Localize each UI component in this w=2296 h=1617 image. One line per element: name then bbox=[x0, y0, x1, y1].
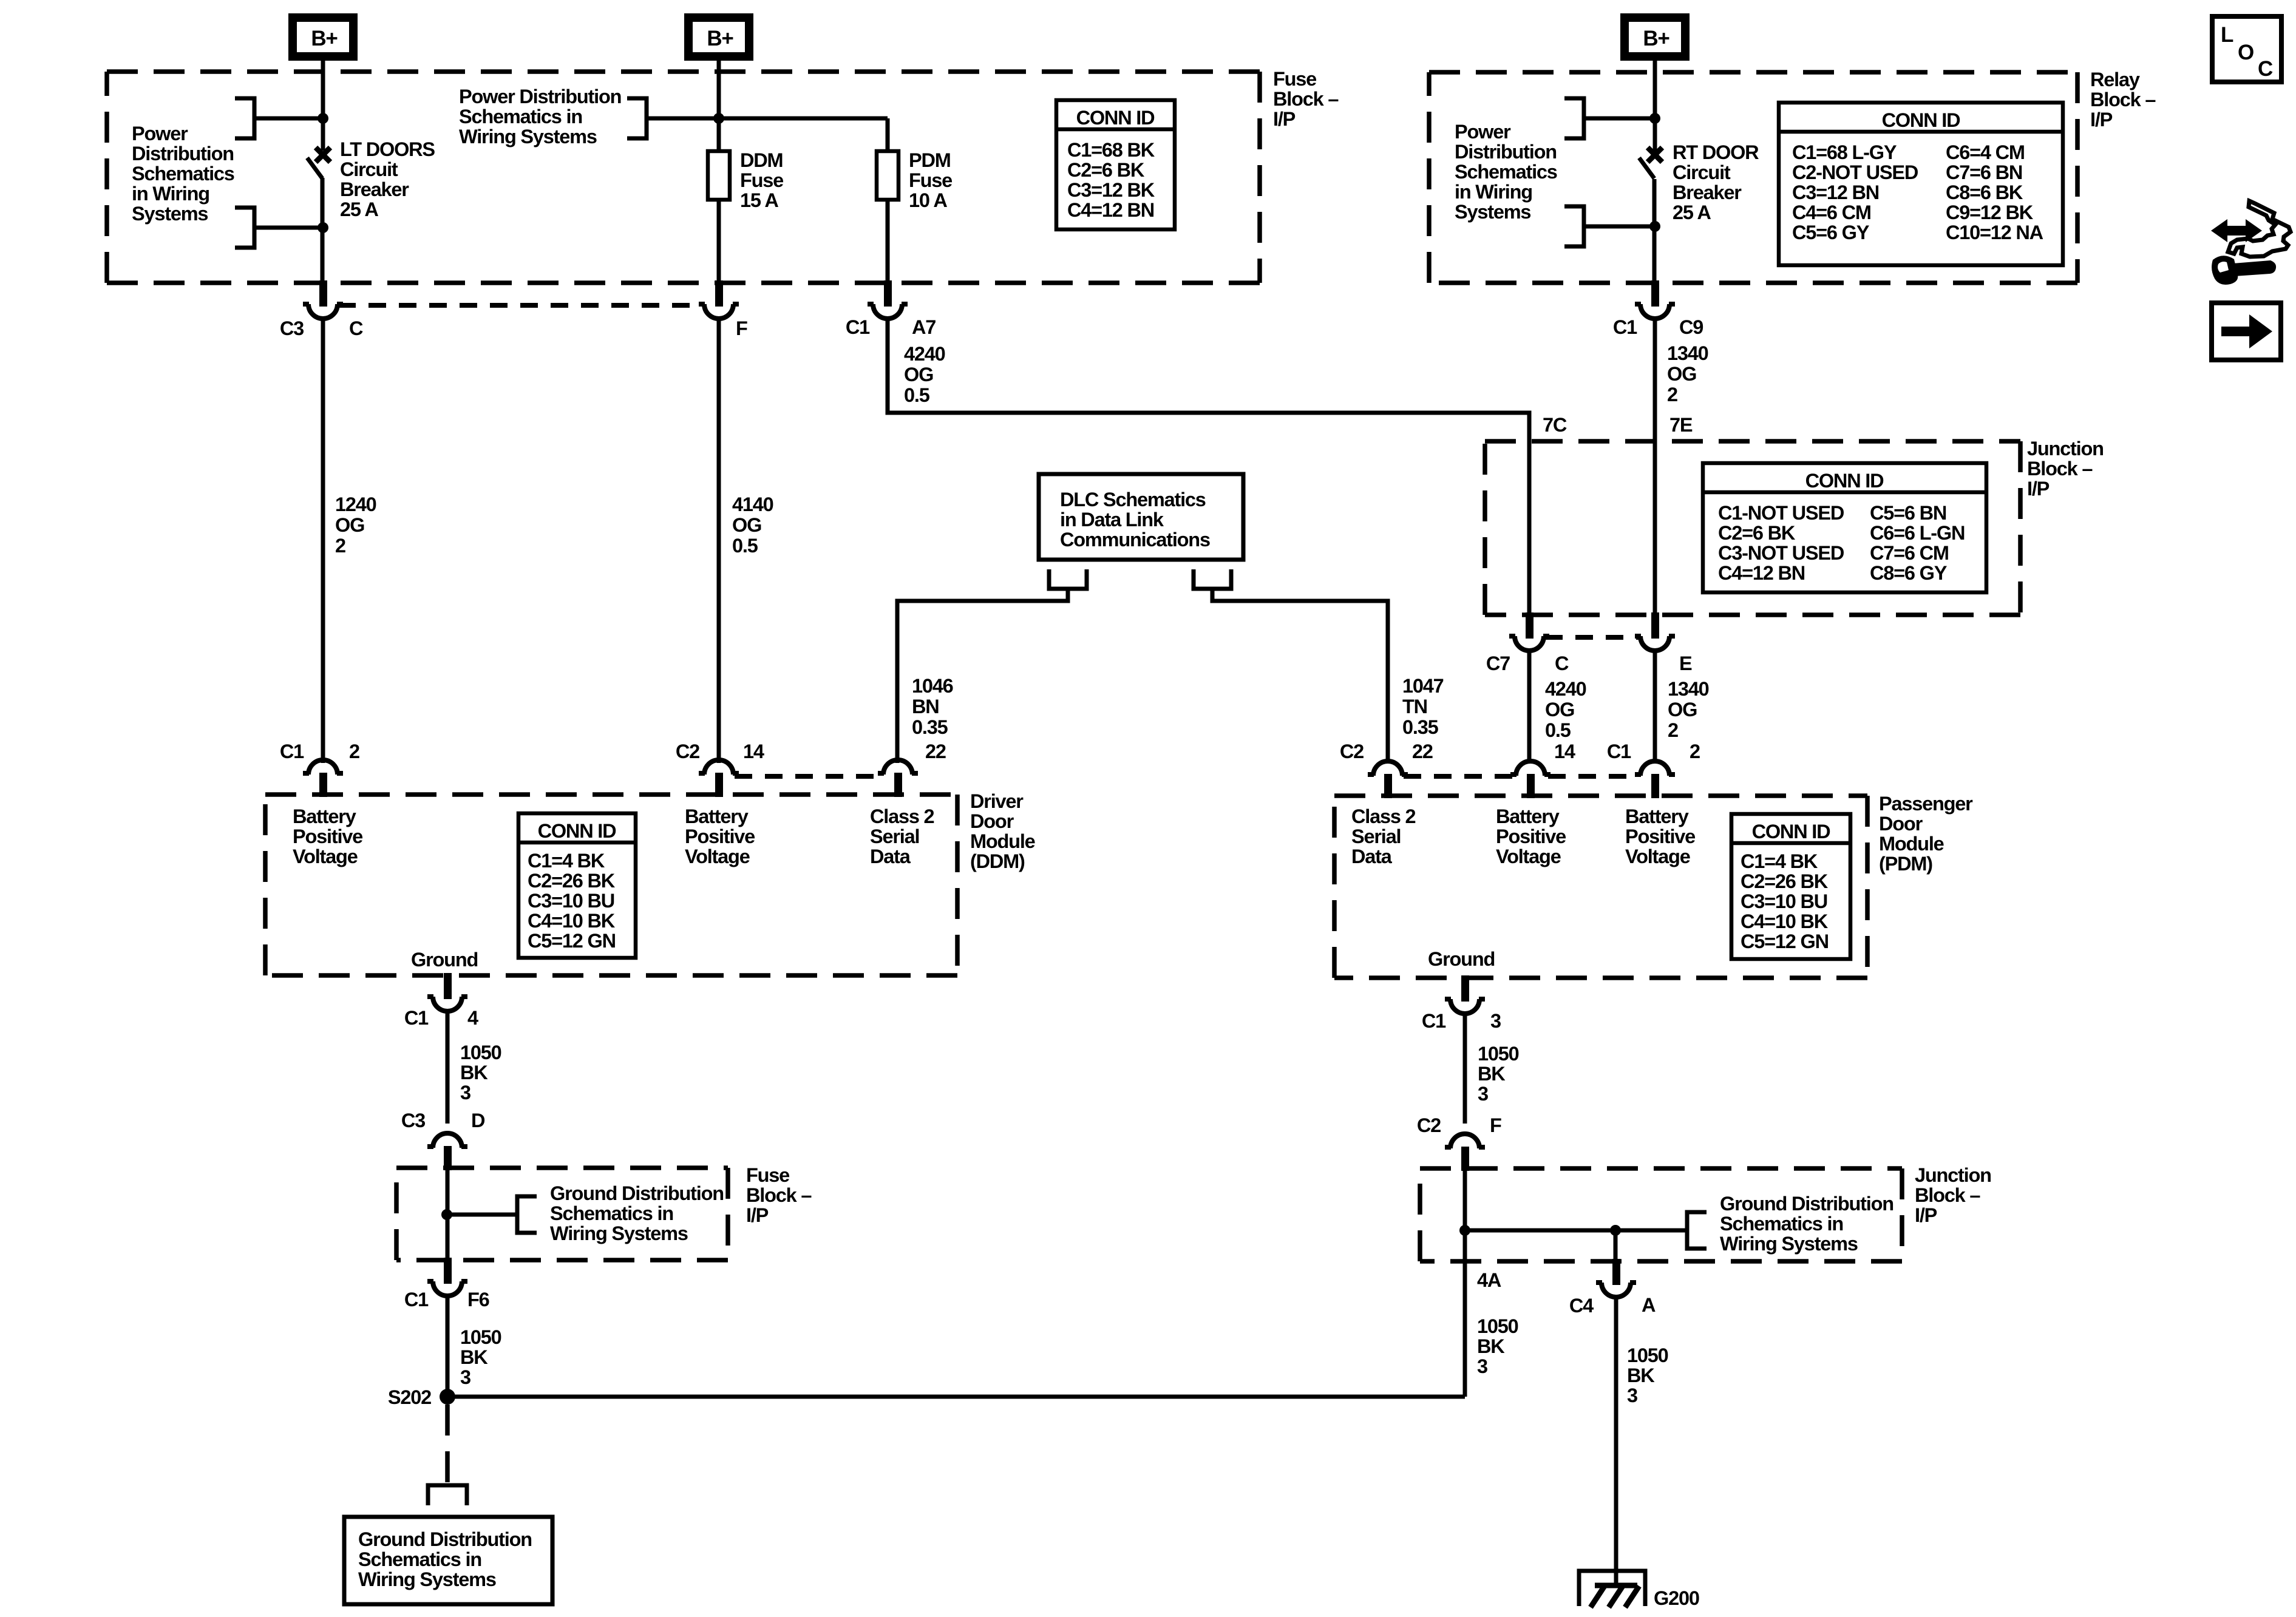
wire to ground distribution bracket bbox=[447, 1213, 517, 1217]
svg-text:C4=10 BK: C4=10 BK bbox=[528, 910, 616, 932]
svg-text:C5=12 GN: C5=12 GN bbox=[528, 930, 616, 952]
svg-text:Passenger: Passenger bbox=[1879, 793, 1973, 815]
wire label 1340 OG 2 bbox=[1667, 342, 1708, 405]
connector C3 pin C bbox=[303, 280, 343, 319]
note Ground Distribution Schematics in Wiring Systems bbox=[550, 1182, 724, 1244]
svg-text:Battery: Battery bbox=[1625, 805, 1689, 827]
svg-text:1050: 1050 bbox=[460, 1326, 501, 1348]
svg-text:C3-NOT USED: C3-NOT USED bbox=[1718, 542, 1844, 564]
svg-text:Power: Power bbox=[132, 123, 188, 144]
continuation bracket (power distribution, bottom) bbox=[1564, 206, 1584, 246]
wire label 1047 TN 0.35 bbox=[1402, 675, 1444, 738]
wire label 1050 BK 3 bbox=[460, 1326, 501, 1388]
wire label 4240 OG 0.5 bbox=[904, 343, 945, 406]
svg-text:BK: BK bbox=[460, 1346, 488, 1368]
svg-text:C3=10 BU: C3=10 BU bbox=[1741, 890, 1827, 912]
label G200 bbox=[1654, 1587, 1699, 1609]
wire label 1046 BN 0.35 bbox=[912, 675, 953, 738]
svg-text:I/P: I/P bbox=[2027, 478, 2050, 500]
svg-text:CONN ID: CONN ID bbox=[1752, 821, 1831, 842]
wire breaker to connector C3 bbox=[321, 178, 325, 283]
table CONN ID (relay block I/P) bbox=[1779, 103, 2063, 265]
junction block I/P enclosure (ground distribution) bbox=[1420, 1168, 1902, 1261]
wire DDM fuse to connector F bbox=[717, 200, 721, 283]
svg-text:3: 3 bbox=[460, 1082, 470, 1103]
wire B+ to RT DOOR breaker bbox=[1653, 61, 1657, 152]
svg-text:C: C bbox=[2258, 57, 2273, 81]
svg-text:Ground: Ground bbox=[1428, 948, 1495, 970]
svg-text:C1: C1 bbox=[1613, 316, 1637, 338]
pin label C1 bbox=[1607, 741, 1631, 762]
svg-text:C2-NOT USED: C2-NOT USED bbox=[1792, 161, 1918, 183]
wire label 1050 BK 3 bbox=[1477, 1315, 1518, 1377]
svg-text:Serial: Serial bbox=[1351, 825, 1401, 847]
svg-text:C2: C2 bbox=[1417, 1114, 1441, 1136]
svg-text:C9: C9 bbox=[1679, 316, 1703, 338]
svg-text:Fuse: Fuse bbox=[909, 169, 952, 191]
net label 7E bbox=[1669, 414, 1693, 436]
svg-text:BK: BK bbox=[1627, 1364, 1655, 1386]
svg-text:Junction: Junction bbox=[1915, 1164, 1991, 1186]
pin label C1 bbox=[846, 316, 870, 338]
continuation bracket (ground distribution) bbox=[1687, 1212, 1707, 1249]
wire 1340 OG 2 down to junction block bbox=[1653, 319, 1657, 612]
wire 1050 BK 3 to splice S202 bbox=[446, 1296, 450, 1397]
svg-text:Voltage: Voltage bbox=[1496, 846, 1561, 867]
text DLC Schematics in Data Link Communications bbox=[1060, 489, 1210, 551]
label Junction Block - I/P bbox=[1915, 1164, 1991, 1226]
svg-text:2: 2 bbox=[335, 535, 345, 557]
svg-text:Schematics in: Schematics in bbox=[358, 1548, 481, 1570]
svg-text:DDM: DDM bbox=[740, 149, 783, 171]
svg-text:2: 2 bbox=[1667, 384, 1677, 405]
svg-text:3: 3 bbox=[1477, 1355, 1487, 1377]
svg-text:C5=12 GN: C5=12 GN bbox=[1741, 931, 1829, 952]
svg-text:25 A: 25 A bbox=[1673, 202, 1711, 223]
continuation bracket (power distribution, top) bbox=[235, 98, 254, 138]
net label 7C bbox=[1543, 414, 1567, 436]
svg-text:C4: C4 bbox=[1569, 1295, 1594, 1317]
pin label A bbox=[1642, 1294, 1656, 1316]
svg-text:C: C bbox=[1555, 653, 1569, 674]
svg-text:0.5: 0.5 bbox=[732, 535, 758, 557]
svg-text:22: 22 bbox=[1412, 741, 1433, 762]
svg-text:7C: 7C bbox=[1543, 414, 1567, 436]
svg-text:C1: C1 bbox=[1422, 1010, 1446, 1032]
fuse PDM Fuse 10A bbox=[877, 151, 898, 200]
svg-text:3: 3 bbox=[460, 1366, 470, 1388]
label S202 bbox=[388, 1386, 431, 1408]
wire 1050 BK 3 to G200 bbox=[1614, 1297, 1618, 1585]
svg-text:Voltage: Voltage bbox=[1625, 846, 1690, 867]
continuation bracket (power distribution, bottom) bbox=[235, 208, 254, 248]
svg-text:OG: OG bbox=[1545, 699, 1574, 720]
svg-text:C4=6 CM: C4=6 CM bbox=[1792, 202, 1871, 223]
pin label 14 bbox=[743, 741, 764, 762]
svg-text:Data: Data bbox=[870, 846, 911, 867]
svg-text:3: 3 bbox=[1490, 1010, 1501, 1032]
svg-text:Serial: Serial bbox=[870, 825, 919, 847]
svg-text:1050: 1050 bbox=[1478, 1043, 1519, 1065]
svg-text:1340: 1340 bbox=[1667, 342, 1708, 364]
svg-text:C2=6 BK: C2=6 BK bbox=[1718, 522, 1796, 544]
svg-text:C1: C1 bbox=[1607, 741, 1631, 762]
svg-text:C2=26 BK: C2=26 BK bbox=[528, 870, 616, 892]
wire 1046 BN 0.35 (class 2 serial data to DDM) bbox=[897, 589, 1068, 763]
svg-text:14: 14 bbox=[1554, 741, 1575, 762]
svg-text:C6=4 CM: C6=4 CM bbox=[1946, 141, 2025, 163]
svg-text:CONN ID: CONN ID bbox=[1805, 470, 1884, 492]
dotted connector line 14 to 22 bbox=[735, 774, 882, 779]
svg-text:3: 3 bbox=[1627, 1385, 1637, 1406]
svg-text:Block –: Block – bbox=[746, 1184, 812, 1206]
svg-text:Module: Module bbox=[1879, 833, 1944, 855]
svg-text:C1: C1 bbox=[846, 316, 870, 338]
svg-text:1240: 1240 bbox=[335, 493, 376, 515]
svg-text:C1: C1 bbox=[404, 1007, 429, 1029]
label RT DOOR Circuit Breaker 25 A bbox=[1673, 141, 1759, 223]
connector pin 22 (DDM class 2 serial data) bbox=[878, 760, 918, 797]
svg-text:D: D bbox=[471, 1110, 485, 1131]
ground G200 bbox=[1579, 1571, 1645, 1607]
callout box DLC Schematics in Data Link Communications bbox=[1039, 474, 1243, 560]
wire to continuation bracket (bottom) bbox=[1586, 225, 1655, 229]
svg-text:C1-NOT USED: C1-NOT USED bbox=[1718, 502, 1844, 524]
svg-text:B+: B+ bbox=[1643, 27, 1669, 50]
svg-text:1050: 1050 bbox=[1627, 1344, 1668, 1366]
continuation bracket (ground distribution) bbox=[428, 1485, 467, 1505]
connector C1 pin 2 (PDM battery positive) bbox=[1635, 761, 1675, 798]
junction dot bbox=[318, 222, 328, 233]
svg-text:Block –: Block – bbox=[1273, 88, 1339, 110]
svg-text:A7: A7 bbox=[912, 316, 936, 338]
junction dot bbox=[1649, 113, 1660, 124]
svg-text:C1: C1 bbox=[404, 1289, 429, 1310]
svg-text:Ground Distribution: Ground Distribution bbox=[550, 1182, 724, 1204]
svg-text:4240: 4240 bbox=[1545, 678, 1586, 700]
svg-text:0.35: 0.35 bbox=[912, 716, 948, 738]
relay block I/P enclosure bbox=[1429, 72, 2077, 283]
svg-text:Systems: Systems bbox=[1455, 201, 1530, 223]
dotted connector line 14 to 2 bbox=[1548, 774, 1638, 779]
fuse block I/P enclosure bbox=[107, 72, 1260, 283]
svg-text:I/P: I/P bbox=[2090, 109, 2113, 131]
svg-text:C7: C7 bbox=[1486, 653, 1510, 674]
svg-text:C3=10 BU: C3=10 BU bbox=[528, 890, 614, 912]
driver door module enclosure bbox=[265, 795, 957, 975]
wire 1050 BK 3 bbox=[1463, 1014, 1467, 1124]
svg-text:Battery: Battery bbox=[685, 805, 749, 827]
wire 4140 OG 0.5 to DDM bbox=[717, 319, 721, 763]
svg-text:3: 3 bbox=[1478, 1083, 1488, 1105]
wire through fuse block bbox=[446, 1170, 450, 1258]
svg-text:Fuse: Fuse bbox=[1273, 68, 1316, 90]
connector F (fuse block) bbox=[699, 280, 739, 319]
svg-text:C9=12 BK: C9=12 BK bbox=[1946, 202, 2034, 223]
pin label 2 bbox=[1690, 741, 1700, 762]
power symbol B+ (LT DOORS feed) bbox=[293, 18, 353, 56]
wire 1047 TN 0.35 (class 2 serial data to PDM) bbox=[1212, 589, 1388, 763]
svg-text:OG: OG bbox=[335, 514, 364, 536]
svg-text:BK: BK bbox=[1478, 1063, 1506, 1085]
svg-text:0.35: 0.35 bbox=[1402, 716, 1439, 738]
svg-text:Communications: Communications bbox=[1060, 529, 1210, 551]
junction dot bbox=[1459, 1225, 1470, 1236]
table CONN ID (PDM) bbox=[1731, 814, 1850, 959]
svg-text:C1=4 BK: C1=4 BK bbox=[528, 850, 605, 872]
svg-text:C8=6 BK: C8=6 BK bbox=[1946, 181, 2023, 203]
text Class 2 Serial Data (DDM) bbox=[870, 805, 934, 867]
svg-text:Ground Distribution: Ground Distribution bbox=[358, 1528, 532, 1550]
svg-text:Power: Power bbox=[1455, 121, 1511, 143]
svg-text:C2=6 BK: C2=6 BK bbox=[1067, 159, 1145, 181]
connector pin E bbox=[1635, 612, 1675, 651]
svg-text:B+: B+ bbox=[311, 27, 338, 50]
svg-text:C6=6 L-GN: C6=6 L-GN bbox=[1870, 522, 1965, 544]
pin label C2 bbox=[1417, 1114, 1441, 1136]
svg-text:C4=12 BN: C4=12 BN bbox=[1718, 562, 1805, 584]
text Battery Positive Voltage (DDM C1) bbox=[293, 805, 362, 867]
connector C1 pin 2 (DDM battery positive) bbox=[303, 760, 343, 797]
connector C2 pin 22 (PDM class 2 serial data) bbox=[1368, 761, 1408, 798]
pin label 3 bbox=[1490, 1010, 1501, 1032]
wire to continuation bracket (top) bbox=[256, 117, 323, 121]
note Power Distribution Schematics in Wiring Systems (right) bbox=[1455, 121, 1557, 223]
svg-text:Positive: Positive bbox=[685, 825, 755, 847]
wire 1340 OG 2 to PDM pin 2 bbox=[1653, 651, 1657, 763]
label DDM Fuse 15 A bbox=[740, 149, 783, 211]
svg-text:Distribution: Distribution bbox=[132, 143, 234, 164]
svg-text:1046: 1046 bbox=[912, 675, 953, 697]
wire down to PDM fuse bbox=[886, 118, 890, 151]
power symbol B+ (DDM fuse feed) bbox=[688, 18, 749, 56]
continuation bracket (power distribution, top) bbox=[1564, 98, 1584, 138]
junction dot bbox=[1610, 1225, 1621, 1236]
svg-text:G200: G200 bbox=[1654, 1587, 1699, 1609]
svg-text:Door: Door bbox=[1879, 813, 1923, 835]
pin label F bbox=[736, 317, 747, 339]
svg-text:TN: TN bbox=[1402, 696, 1427, 717]
continuation bracket (DLC right) bbox=[1194, 569, 1231, 589]
svg-text:S202: S202 bbox=[388, 1386, 431, 1408]
svg-text:I/P: I/P bbox=[746, 1204, 769, 1226]
note Ground Distribution Schematics in Wiring Systems bbox=[1720, 1193, 1894, 1255]
svg-text:4: 4 bbox=[467, 1007, 478, 1029]
svg-text:C4=12 BN: C4=12 BN bbox=[1067, 199, 1154, 221]
svg-text:Battery: Battery bbox=[1496, 805, 1560, 827]
wire branch to PDM fuse bbox=[719, 117, 888, 121]
circuit breaker LT DOORS 25A bbox=[307, 147, 330, 178]
wire to ground distribution bracket bbox=[1465, 1229, 1687, 1233]
svg-text:2: 2 bbox=[1690, 741, 1700, 762]
svg-text:LT DOORS: LT DOORS bbox=[340, 138, 435, 160]
pin label C3 bbox=[280, 317, 304, 339]
svg-text:Module: Module bbox=[970, 830, 1035, 852]
text Ground (PDM) bbox=[1428, 948, 1495, 970]
svg-text:1050: 1050 bbox=[460, 1042, 501, 1063]
svg-text:CONN ID: CONN ID bbox=[1076, 107, 1155, 129]
svg-text:BK: BK bbox=[1477, 1335, 1505, 1357]
svg-text:C2=26 BK: C2=26 BK bbox=[1741, 870, 1829, 892]
wire to continuation bracket (top) bbox=[1586, 117, 1655, 121]
svg-text:Power Distribution: Power Distribution bbox=[459, 86, 621, 107]
wire B+ to LT DOORS breaker bbox=[321, 61, 325, 151]
wire to continuation bracket (bottom) bbox=[256, 226, 323, 230]
fuse DDM Fuse 15A bbox=[708, 151, 730, 200]
pin label C4 bbox=[1569, 1295, 1594, 1317]
pin label C3 bbox=[401, 1110, 425, 1131]
svg-text:OG: OG bbox=[1668, 699, 1697, 720]
wire 1240 OG 2 to DDM bbox=[321, 319, 325, 763]
table CONN ID (DDM) bbox=[518, 813, 636, 958]
label Fuse Block - I/P bbox=[746, 1164, 812, 1226]
svg-text:OG: OG bbox=[732, 514, 761, 536]
svg-text:Relay: Relay bbox=[2090, 69, 2140, 90]
table CONN ID (fuse block I/P) bbox=[1056, 100, 1175, 229]
svg-text:C8=6 GY: C8=6 GY bbox=[1870, 562, 1948, 584]
svg-text:C1=68 L-GY: C1=68 L-GY bbox=[1792, 141, 1897, 163]
svg-text:B+: B+ bbox=[707, 27, 733, 50]
svg-text:F: F bbox=[736, 317, 747, 339]
svg-text:Distribution: Distribution bbox=[1455, 141, 1557, 163]
text Battery Positive Voltage (PDM C1) bbox=[1625, 805, 1695, 867]
continuation bracket (DLC left) bbox=[1049, 569, 1087, 589]
svg-text:Wiring Systems: Wiring Systems bbox=[358, 1568, 496, 1590]
svg-text:I/P: I/P bbox=[1915, 1204, 1937, 1226]
pin label C1 bbox=[1613, 316, 1637, 338]
svg-text:15 A: 15 A bbox=[740, 189, 778, 211]
wire label 4240 OG 0.5 bbox=[1545, 678, 1586, 741]
label Relay Block - I/P bbox=[2090, 69, 2156, 131]
connector C1 pin C9 bbox=[1635, 280, 1675, 319]
power symbol B+ (RT DOOR feed) bbox=[1625, 18, 1685, 56]
svg-text:Schematics: Schematics bbox=[132, 163, 234, 185]
svg-text:C7=6 CM: C7=6 CM bbox=[1870, 542, 1949, 564]
pin label C7 bbox=[1486, 653, 1510, 674]
icon arrow box bbox=[2212, 303, 2281, 360]
pin label C1 bbox=[404, 1007, 429, 1029]
table CONN ID (junction block I/P) bbox=[1703, 463, 1986, 592]
svg-text:4140: 4140 bbox=[732, 493, 773, 515]
connector C2 pin F (junction block) bbox=[1445, 1134, 1485, 1171]
pin label E bbox=[1679, 653, 1692, 674]
circuit breaker RT DOOR 25A bbox=[1639, 147, 1662, 178]
svg-text:in Wiring: in Wiring bbox=[1455, 181, 1532, 203]
svg-text:Block –: Block – bbox=[2027, 458, 2093, 480]
svg-text:C3=12 BK: C3=12 BK bbox=[1067, 179, 1155, 201]
svg-text:C7=6 BN: C7=6 BN bbox=[1946, 161, 2022, 183]
svg-text:CONN ID: CONN ID bbox=[538, 820, 617, 842]
svg-text:BN: BN bbox=[912, 696, 939, 717]
svg-text:7E: 7E bbox=[1669, 414, 1693, 436]
svg-text:C1: C1 bbox=[280, 741, 304, 762]
wire 4240 OG 0.5 run to junction block bbox=[888, 319, 1529, 612]
wire 4240 OG 0.5 to PDM pin 14 bbox=[1527, 651, 1532, 763]
svg-text:RT DOOR: RT DOOR bbox=[1673, 141, 1759, 163]
svg-text:Schematics: Schematics bbox=[1455, 161, 1557, 183]
svg-text:Class 2: Class 2 bbox=[870, 805, 934, 827]
label Junction Block - I/P bbox=[2027, 438, 2104, 500]
splice S202 bbox=[440, 1389, 455, 1405]
dashed wire S202 to ground distribution bbox=[445, 1405, 450, 1485]
note Power Distribution Schematics in Wiring Systems (left) bbox=[132, 123, 234, 225]
connector C1 pin 4 (DDM ground) bbox=[427, 973, 467, 1011]
wire through junction block bbox=[1463, 1170, 1467, 1261]
wire branch to G200 bbox=[1614, 1230, 1618, 1261]
text Battery Positive Voltage (PDM 14) bbox=[1496, 805, 1566, 867]
svg-text:0.5: 0.5 bbox=[904, 384, 930, 406]
icon service glove with double arrow and wrench bbox=[2211, 201, 2291, 285]
svg-text:1050: 1050 bbox=[1477, 1315, 1518, 1337]
wire label 1240 OG 2 bbox=[335, 493, 376, 557]
wire label 1340 OG 2 bbox=[1668, 678, 1709, 741]
connector C2 pin 14 (DDM battery positive) bbox=[699, 760, 739, 797]
svg-text:10 A: 10 A bbox=[909, 189, 947, 211]
svg-text:F: F bbox=[1490, 1114, 1501, 1136]
svg-text:F6: F6 bbox=[467, 1289, 489, 1310]
dotted connector line C to E bbox=[1545, 635, 1639, 640]
wire label 4140 OG 0.5 bbox=[732, 493, 773, 557]
svg-text:Data: Data bbox=[1351, 846, 1393, 867]
svg-text:2: 2 bbox=[349, 741, 359, 762]
junction dot bbox=[713, 113, 724, 124]
svg-text:Wiring Systems: Wiring Systems bbox=[550, 1222, 688, 1244]
pin label D bbox=[471, 1110, 485, 1131]
net label 4A bbox=[1477, 1269, 1501, 1291]
passenger door module enclosure bbox=[1334, 796, 1867, 978]
wire 1050 BK 3 (4A) to S202 bbox=[1463, 1261, 1467, 1397]
continuation bracket (power distribution) bbox=[627, 98, 647, 138]
svg-text:2: 2 bbox=[1668, 719, 1678, 741]
svg-text:DLC Schematics: DLC Schematics bbox=[1060, 489, 1206, 510]
svg-text:C10=12 NA: C10=12 NA bbox=[1946, 222, 2043, 243]
svg-text:Breaker: Breaker bbox=[1673, 181, 1742, 203]
label PDM Fuse 10 A bbox=[909, 149, 952, 211]
svg-text:Voltage: Voltage bbox=[293, 846, 358, 867]
svg-text:O: O bbox=[2238, 41, 2254, 64]
connector C1 pin A7 bbox=[868, 280, 908, 319]
svg-text:Class 2: Class 2 bbox=[1351, 805, 1416, 827]
pin label C bbox=[1555, 653, 1569, 674]
text Battery Positive Voltage (DDM C2) bbox=[685, 805, 755, 867]
callout box Ground Distribution Schematics in Wiring Systems bbox=[344, 1517, 552, 1604]
pin label C2 bbox=[676, 741, 699, 762]
wire 1050 BK 3 bbox=[446, 1011, 450, 1124]
svg-text:C1=4 BK: C1=4 BK bbox=[1741, 850, 1818, 872]
pin label 2 bbox=[349, 741, 359, 762]
text Ground (DDM) bbox=[411, 949, 478, 971]
connector C7 pin C bbox=[1509, 612, 1549, 651]
pin label 22 bbox=[925, 741, 946, 762]
fuse block I/P enclosure (ground distribution) bbox=[396, 1168, 728, 1260]
connector C4 pin A bbox=[1596, 1259, 1636, 1297]
svg-text:Ground: Ground bbox=[411, 949, 478, 971]
connector C1 pin F6 bbox=[427, 1258, 467, 1296]
wire PDM fuse to connector A7 bbox=[886, 200, 890, 283]
svg-text:Door: Door bbox=[970, 810, 1014, 832]
svg-text:Positive: Positive bbox=[1625, 825, 1695, 847]
wire S202 to junction block ground bbox=[447, 1395, 1465, 1399]
svg-text:Wiring Systems: Wiring Systems bbox=[459, 126, 597, 147]
svg-text:OG: OG bbox=[1667, 363, 1696, 385]
svg-text:Battery: Battery bbox=[293, 805, 356, 827]
svg-text:Schematics in: Schematics in bbox=[550, 1202, 673, 1224]
pin label C1 bbox=[1422, 1010, 1446, 1032]
svg-text:OG: OG bbox=[904, 364, 933, 385]
svg-text:Fuse: Fuse bbox=[740, 169, 783, 191]
pin label C1 bbox=[280, 741, 304, 762]
label Driver Door Module (DDM) bbox=[970, 790, 1035, 872]
